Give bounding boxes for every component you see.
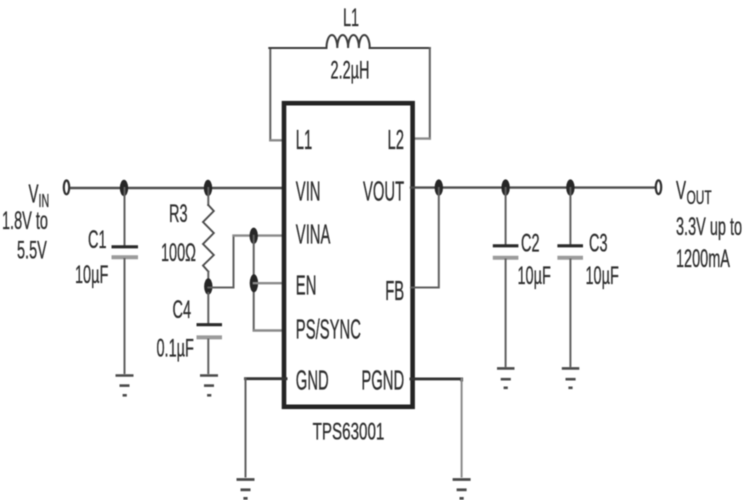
node: junction dot R3 bottom / C4 — [204, 278, 212, 294]
wire: VINA-EN vertical — [253, 236, 255, 331]
wire: output rail — [411, 186, 654, 188]
node: junction dot EN — [250, 274, 258, 292]
wire: C2 top lead — [505, 188, 507, 244]
svg-text:V: V — [676, 176, 687, 205]
wire: L1 pin stub — [270, 139, 286, 141]
capacitor C1 — [112, 247, 139, 257]
ground (C1) — [116, 376, 134, 396]
wire: input rail — [71, 187, 285, 189]
resistor R3 — [203, 188, 214, 286]
output terminal circle — [656, 180, 661, 194]
wire: GND pin lead — [246, 377, 287, 380]
svg-text:L1: L1 — [343, 5, 359, 32]
svg-text:C4: C4 — [173, 297, 192, 324]
wire: L2 pin stub — [411, 137, 430, 139]
svg-text:10µF: 10µF — [586, 263, 619, 290]
wire: PS/SYNC line — [254, 329, 286, 331]
capacitor C4 — [197, 325, 223, 338]
wire: C4 top lead — [207, 293, 209, 323]
wire: C3 top lead — [569, 188, 571, 244]
capacitor C3 — [557, 246, 583, 258]
node: junction dot C1/rail — [120, 180, 128, 196]
wire: PGND pin lead — [411, 379, 462, 380]
label VIN — [29, 179, 50, 212]
svg-text:V: V — [29, 179, 40, 208]
svg-text:GND: GND — [296, 364, 329, 395]
svg-text:10µF: 10µF — [75, 262, 108, 289]
wire: PGND down lead — [461, 379, 463, 477]
svg-text:PGND: PGND — [361, 364, 404, 395]
wire: R3 bottom to VINA riser — [208, 236, 233, 288]
svg-text:VIN: VIN — [296, 175, 321, 206]
svg-text:VINA: VINA — [296, 219, 331, 250]
wire: top loop right horizontal — [370, 47, 430, 49]
svg-text:5.5V: 5.5V — [17, 238, 47, 265]
node: junction dot R3/rail — [204, 180, 212, 196]
input terminal circle — [64, 181, 69, 195]
node: junction dot C3 — [566, 179, 574, 195]
ground (C2) — [497, 368, 515, 387]
svg-text:TPS63001: TPS63001 — [313, 419, 385, 445]
IC U1 TPS63001 box — [284, 103, 413, 407]
svg-text:1200mA: 1200mA — [676, 246, 730, 273]
ground (C3) — [562, 368, 580, 387]
svg-text:FB: FB — [385, 275, 404, 306]
svg-text:L1: L1 — [296, 124, 312, 155]
svg-text:L2: L2 — [388, 124, 404, 155]
svg-text:2.2µH: 2.2µH — [331, 58, 370, 85]
wire: GND down lead — [245, 379, 247, 477]
svg-text:C2: C2 — [521, 231, 540, 258]
wire: VINA line — [234, 234, 287, 236]
wire: C2 bottom lead — [505, 260, 507, 367]
wire: top loop left vertical — [269, 48, 271, 140]
ground (PGND) — [453, 480, 471, 499]
svg-text:R3: R3 — [169, 201, 188, 228]
svg-text:VOUT: VOUT — [363, 176, 404, 207]
svg-text:1.8V to: 1.8V to — [2, 208, 48, 235]
wire: FB loop — [411, 188, 439, 288]
svg-text:0.1µF: 0.1µF — [157, 336, 194, 363]
svg-text:C3: C3 — [589, 231, 608, 258]
wire: C4 bottom lead — [207, 340, 209, 374]
svg-text:10µF: 10µF — [518, 263, 551, 290]
wire: top loop left horizontal — [269, 47, 326, 49]
node: junction dot C2 — [501, 179, 509, 195]
svg-text:EN: EN — [296, 269, 317, 300]
wire: C1 bottom lead — [124, 259, 126, 373]
ground (C4) — [200, 376, 218, 396]
node: junction dot FB/VOUT — [435, 179, 443, 195]
svg-text:100Ω: 100Ω — [161, 240, 196, 267]
ground (GND pin) — [237, 480, 255, 499]
label VOUT — [676, 176, 712, 209]
wire: C3 bottom lead — [569, 260, 571, 367]
svg-text:C1: C1 — [88, 227, 107, 254]
wire: C1 top lead — [124, 188, 126, 245]
svg-text:3.3V up to: 3.3V up to — [676, 214, 742, 241]
node: junction dot VINA — [250, 228, 258, 244]
wire: top loop right vertical — [429, 48, 431, 139]
capacitor C2 — [493, 246, 519, 258]
svg-text:OUT: OUT — [687, 188, 712, 208]
wire: EN line — [254, 282, 286, 284]
svg-text:PS/SYNC: PS/SYNC — [296, 313, 361, 344]
inductor L1 — [327, 35, 370, 48]
